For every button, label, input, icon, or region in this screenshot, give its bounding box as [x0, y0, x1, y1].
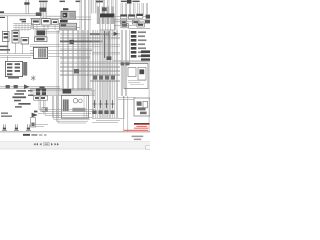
red stamp bar — [134, 123, 149, 125]
harness column bundle — [97, 7, 114, 25]
splice band lower — [100, 18, 114, 31]
wire: harness verticals x91-100 top — [92, 0, 100, 14]
node EGI label — [96, 1, 103, 3]
node IGN label — [24, 2, 29, 4]
wire: harness verticals x80-90 — [80, 0, 90, 90]
connector pin list labels — [138, 31, 146, 57]
wire: left junction grid — [13, 23, 34, 31]
node label rows left-mid — [0, 46, 10, 51]
ignition switch block — [60, 8, 77, 30]
wire: bus under junction row — [30, 25, 62, 30]
footer pager band — [0, 141, 150, 150]
red stamp text line 2 — [134, 127, 148, 130]
condenser row in harness — [93, 75, 115, 79]
horn relay block — [35, 30, 46, 37]
resistor marks mid — [74, 69, 79, 73]
flasher unit box — [34, 37, 47, 42]
wire: nested routing bottom-center — [33, 96, 95, 127]
combination meter — [33, 47, 47, 58]
wire: right-top interconnect pairs — [114, 16, 150, 28]
injector array — [93, 100, 115, 108]
scroll corner box — [146, 146, 151, 149]
terminal bars right edge — [141, 50, 150, 61]
distributor cap block — [127, 0, 132, 4]
node C/F label — [60, 1, 66, 2]
ground G3 — [26, 124, 31, 130]
node label under fuse panel — [8, 77, 19, 79]
fuse marks in junction row — [33, 20, 57, 23]
sensor row 2 — [121, 20, 150, 28]
relay R3 outline — [30, 118, 35, 127]
connector above bundle — [102, 7, 107, 11]
splice connector mid — [107, 56, 112, 60]
wire: supply drop bundle — [41, 3, 47, 19]
node HARN label — [132, 1, 139, 2]
inline connector C5 — [6, 85, 10, 89]
fuse block F1 — [40, 8, 47, 12]
ignition coil block — [63, 89, 72, 93]
wire: left mid bus trio — [0, 42, 34, 62]
wire: right-bottom feed pair — [118, 98, 136, 100]
wire: center horizontal pairs upper — [45, 32, 120, 39]
fuse panel assembly — [5, 61, 27, 76]
wire: feed into junction row — [30, 16, 62, 18]
injector connector row — [92, 110, 114, 114]
wire: fusible link pair — [26, 0, 28, 14]
harness shade band — [100, 30, 111, 118]
alternator assembly box — [124, 63, 148, 88]
wire: top-left battery bus — [0, 14, 39, 54]
wire: verticals above ECM — [103, 0, 113, 13]
footer caption text — [23, 134, 47, 136]
splice band dark — [100, 14, 114, 18]
wire: center horizontal pairs lower — [60, 43, 120, 59]
wire: meter leads — [30, 50, 92, 56]
node B+ label — [0, 11, 5, 18]
wire: right band y60 — [113, 60, 150, 61]
wire: lower-left feed pair — [0, 87, 60, 89]
node small labels left of switch row — [28, 90, 34, 96]
switch row boxes lower-left — [34, 89, 48, 101]
inline connector C7 — [39, 86, 44, 90]
wire: right-center vertical harness — [92, 30, 117, 118]
node POWER SUPPLY label — [39, 1, 48, 3]
footer band bottom border — [0, 148, 150, 150]
red stamp text line 3 — [124, 130, 148, 131]
node MAIN label — [121, 1, 127, 2]
ground G1 — [2, 124, 7, 130]
pager controls — [34, 143, 60, 146]
node label x76 — [76, 1, 81, 2]
footer right credit text — [132, 136, 144, 141]
gauge assembly box — [61, 95, 88, 118]
connector box small — [42, 108, 48, 112]
junction blob — [106, 33, 109, 36]
node arrow lower-left — [24, 84, 29, 89]
starter assembly box — [134, 98, 150, 116]
relay cluster label left — [20, 19, 26, 23]
wire: center bus pair y44-47 — [30, 45, 120, 47]
wire: dark trunk pair — [105, 31, 109, 58]
relay K1 — [36, 12, 42, 16]
instrument text stack — [12, 90, 30, 107]
wire: lower-center top lines — [30, 91, 95, 96]
junction block row — [31, 19, 58, 25]
connector stack left A — [2, 31, 9, 41]
relay K2 — [21, 37, 29, 44]
wire: switch output pair — [76, 17, 92, 27]
inline connector C6 — [14, 85, 18, 89]
connector pin list boxes — [131, 31, 137, 58]
wire: page bottom border — [0, 131, 150, 133]
page right edge shade — [148, 62, 150, 132]
inline connector pair right — [121, 62, 130, 65]
node PIN1 CONNECTORS label — [1, 112, 12, 117]
footer band top border — [0, 140, 150, 142]
wire: right column verticals — [121, 30, 129, 132]
node arrow duck — [32, 111, 38, 118]
wire: center column pairs — [57, 30, 89, 118]
sensor row 1 — [121, 14, 151, 19]
red stamp text line 1 — [136, 125, 147, 128]
wire: mid-low horizontal pairs — [30, 62, 148, 90]
wire: right-top drop columns — [121, 3, 148, 15]
connector stack left B — [12, 30, 19, 43]
wire: dark feed with diode — [60, 34, 108, 41]
antenna symbol — [31, 75, 35, 80]
ground G2 — [14, 124, 19, 130]
wire: closing outline loops — [92, 96, 124, 123]
node arrow right-center — [114, 32, 119, 36]
diode D1 — [69, 40, 74, 44]
wire: pair x115-117 — [116, 0, 117, 30]
